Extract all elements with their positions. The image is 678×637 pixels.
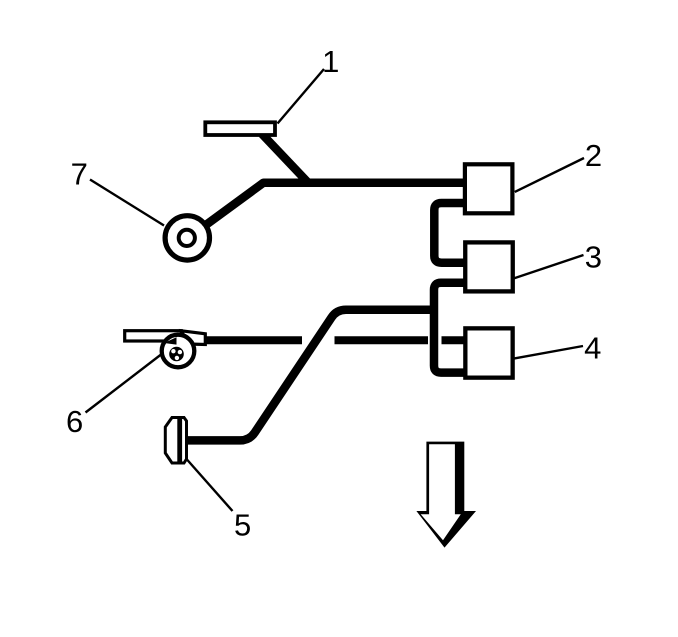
- connector 3: [465, 242, 513, 291]
- leader line to label 1: [278, 69, 325, 124]
- svg-text:7: 7: [71, 157, 88, 192]
- svg-text:2: 2: [585, 138, 602, 173]
- wire branch from connector 5 up to loop junction: [186, 310, 438, 441]
- svg-text:5: 5: [234, 508, 251, 543]
- connector 5 body: [165, 418, 186, 464]
- leader line to label 7: [90, 180, 164, 226]
- leader line to label 4: [514, 346, 583, 359]
- arrow shadow silhouette: [416, 442, 476, 548]
- grommet 7 outer ring: [165, 216, 209, 260]
- wire main trunk from grommet 7 to connector 2: [204, 183, 466, 227]
- wire from clip 6 toward connector 4, segment 2: [335, 336, 429, 344]
- leader line to label 5: [187, 459, 233, 511]
- wire from clip 6 toward connector 4, segment 1: [203, 336, 302, 344]
- connector 5 flange bar: [177, 417, 182, 465]
- arrow white face: [421, 444, 461, 540]
- wire loop from connector 3 to connector 4: [434, 283, 466, 373]
- grommet 7 inner ring: [179, 230, 195, 246]
- connector 4: [465, 328, 512, 377]
- clip 6 pin head: [169, 347, 184, 362]
- leader line to label 6: [86, 353, 164, 413]
- leader line to label 2: [515, 158, 584, 192]
- wire stub into connector 4: [442, 336, 465, 344]
- connector 2: [465, 164, 513, 213]
- clip 6 right flag: [182, 331, 206, 345]
- svg-text:1: 1: [322, 44, 339, 79]
- svg-text:3: 3: [585, 240, 602, 275]
- clip 6 scroll body: [162, 335, 195, 368]
- wire harness branch from component 1 to main trunk: [262, 134, 308, 182]
- clip 6 curl tip: [164, 337, 177, 344]
- svg-text:4: 4: [584, 331, 601, 366]
- clip 6 flat tab: [125, 331, 182, 341]
- svg-text:6: 6: [66, 404, 83, 439]
- component 1 flat bracket: [205, 122, 275, 135]
- wire loop from connector 2 to connector 3: [434, 203, 466, 263]
- leader line to label 3: [514, 255, 584, 279]
